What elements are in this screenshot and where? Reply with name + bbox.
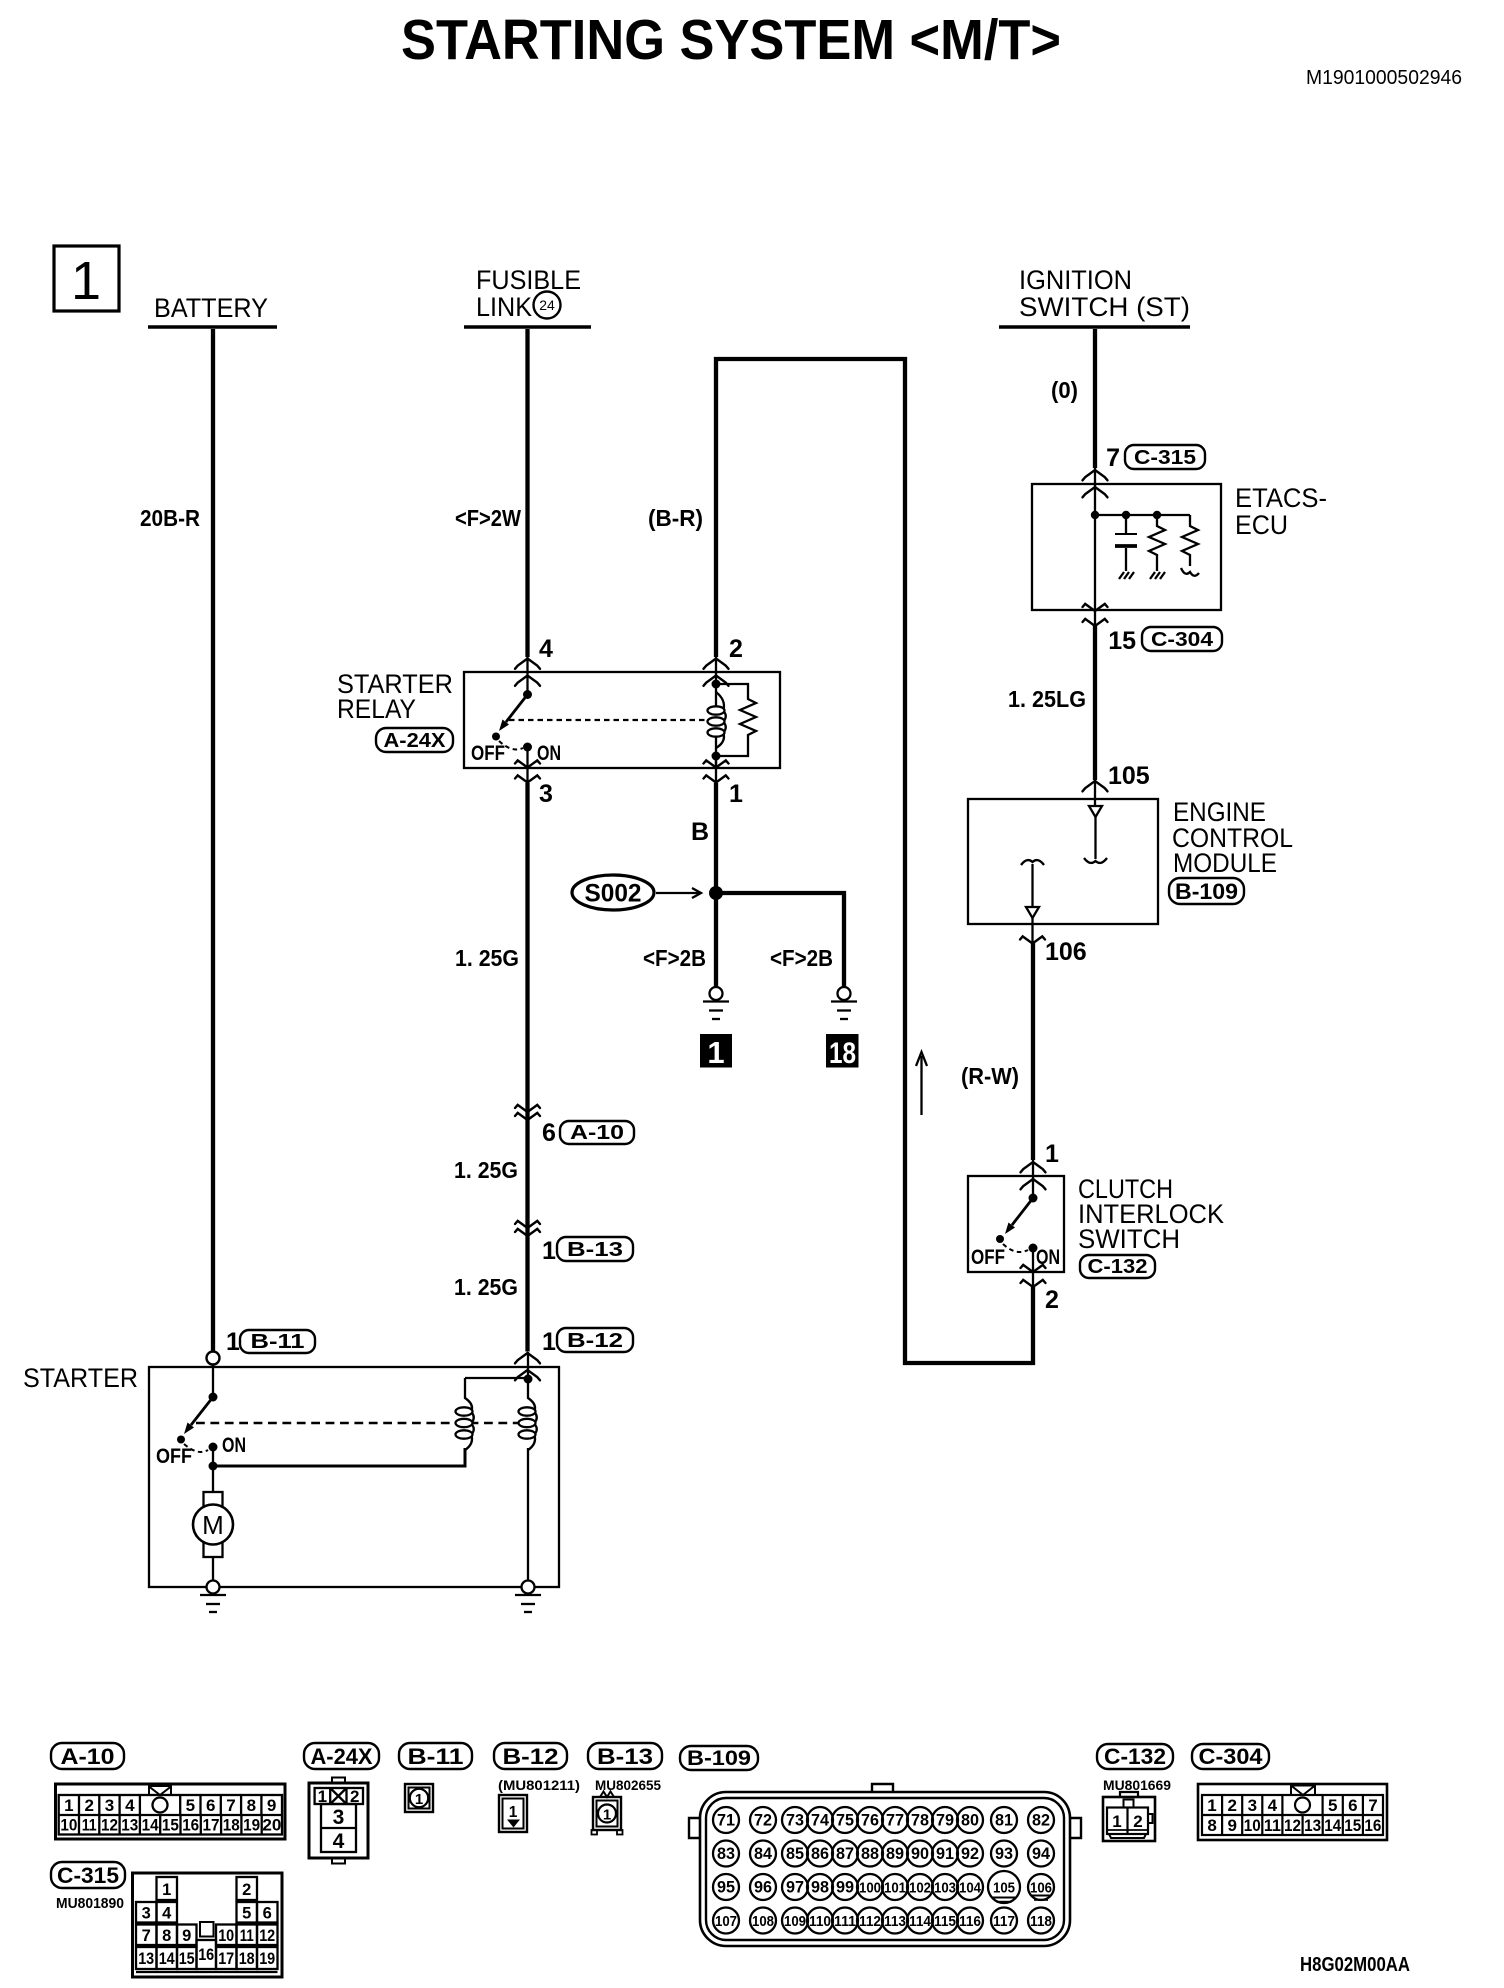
svg-text:17: 17 xyxy=(203,1816,220,1835)
ECM pin 105 internal terminal xyxy=(1084,806,1107,863)
svg-text:A-24X: A-24X xyxy=(384,730,447,752)
svg-text:74: 74 xyxy=(811,1812,830,1830)
svg-text:1: 1 xyxy=(64,1796,73,1815)
svg-text:1: 1 xyxy=(71,251,101,311)
svg-text:15: 15 xyxy=(162,1816,179,1835)
pin numbers C-315 xyxy=(138,1881,275,1968)
svg-text:1: 1 xyxy=(509,1804,518,1821)
connector label C-304 bottom xyxy=(1192,1744,1269,1769)
resistor 2 in ETACS xyxy=(1182,515,1198,566)
svg-text:12: 12 xyxy=(259,1927,275,1945)
connector label B-11 inline xyxy=(240,1330,315,1353)
starter relay box xyxy=(464,672,780,768)
svg-text:1: 1 xyxy=(1112,1812,1121,1831)
relay dashed link xyxy=(509,719,707,721)
svg-text:OFF: OFF xyxy=(156,1445,192,1468)
connector label A-10 bottom xyxy=(51,1743,124,1769)
chevron ECM pin 106 exit xyxy=(1020,936,1045,943)
clutch interlock switch label xyxy=(1078,1174,1224,1254)
svg-text:2: 2 xyxy=(242,1881,251,1899)
svg-text:89: 89 xyxy=(886,1845,904,1863)
svg-text:109: 109 xyxy=(784,1913,806,1930)
svg-text:ON: ON xyxy=(1036,1246,1060,1269)
connector label A-24X bottom xyxy=(304,1743,379,1769)
svg-text:2: 2 xyxy=(729,635,743,663)
svg-text:72: 72 xyxy=(754,1812,772,1830)
chevron relay pin 4 entry xyxy=(515,659,540,669)
starter relay label xyxy=(337,669,453,724)
svg-text:116: 116 xyxy=(959,1913,981,1930)
pin numbers C-304 xyxy=(1207,1796,1381,1835)
capacitor in ETACS xyxy=(1115,515,1137,571)
fusible link label xyxy=(464,265,591,327)
svg-text:106: 106 xyxy=(1030,1880,1052,1897)
svg-text:6: 6 xyxy=(263,1905,272,1923)
svg-text:19: 19 xyxy=(259,1950,275,1968)
svg-text:1: 1 xyxy=(318,1787,327,1806)
resistor 1 in ETACS xyxy=(1149,515,1165,571)
svg-text:1: 1 xyxy=(729,780,743,808)
svg-text:96: 96 xyxy=(754,1879,772,1897)
wire coil top link xyxy=(465,1377,528,1379)
svg-text:<F>2B: <F>2B xyxy=(770,945,833,971)
svg-text:7: 7 xyxy=(142,1927,151,1945)
svg-text:OFF: OFF xyxy=(971,1246,1005,1269)
wire 1.25LG ETACS to ECM xyxy=(1094,610,1096,627)
svg-text:79: 79 xyxy=(936,1812,954,1830)
svg-text:88: 88 xyxy=(861,1845,879,1863)
svg-text:4: 4 xyxy=(162,1905,172,1923)
svg-text:2: 2 xyxy=(84,1796,93,1815)
hook terminal under resistor 2 xyxy=(1181,568,1199,576)
svg-text:6: 6 xyxy=(206,1796,215,1815)
svg-text:C-304: C-304 xyxy=(1151,629,1214,651)
svg-text:86: 86 xyxy=(811,1845,829,1863)
svg-text:2: 2 xyxy=(350,1787,359,1806)
svg-text:11: 11 xyxy=(82,1816,97,1835)
pin numbers A-10 row 2 xyxy=(60,1816,281,1835)
wire ignition switch to ETACS pin 7 xyxy=(1093,329,1097,468)
relay coil resistor xyxy=(716,684,756,756)
svg-text:M1901000502946: M1901000502946 xyxy=(1306,67,1462,89)
svg-text:12: 12 xyxy=(101,1816,118,1835)
svg-text:6: 6 xyxy=(1348,1796,1357,1815)
wire B-R thick loop xyxy=(716,359,1033,1363)
svg-text:81: 81 xyxy=(995,1812,1013,1830)
connector label A-24X xyxy=(376,728,453,752)
wire splice branch to ground 18 xyxy=(716,893,844,987)
svg-text:(0): (0) xyxy=(1051,377,1078,403)
svg-text:A-24X: A-24X xyxy=(311,1744,373,1769)
svg-text:105: 105 xyxy=(1108,762,1150,790)
svg-text:3: 3 xyxy=(333,1806,345,1829)
svg-text:76: 76 xyxy=(861,1812,879,1830)
connector label C-315 bottom xyxy=(51,1862,125,1888)
starter dashed link xyxy=(196,1422,527,1424)
chevron inline connector B-13 xyxy=(515,1221,540,1228)
svg-text:4: 4 xyxy=(539,635,553,663)
connector label A-10 inline xyxy=(560,1121,634,1144)
svg-text:4: 4 xyxy=(1268,1796,1278,1815)
svg-text:1: 1 xyxy=(603,1807,611,1824)
svg-text:H8G02M00AA: H8G02M00AA xyxy=(1300,1954,1410,1976)
svg-text:75: 75 xyxy=(836,1812,854,1830)
svg-text:95: 95 xyxy=(717,1879,735,1897)
svg-text:115: 115 xyxy=(934,1913,956,1930)
svg-text:107: 107 xyxy=(715,1913,737,1930)
connector diagram C-315 xyxy=(133,1873,283,1977)
ground 1 xyxy=(703,987,729,1019)
svg-text:BATTERY: BATTERY xyxy=(154,293,268,323)
svg-text:17: 17 xyxy=(218,1950,234,1968)
connector diagram B-13 xyxy=(592,1792,623,1835)
svg-text:1: 1 xyxy=(1207,1796,1216,1815)
svg-text:1: 1 xyxy=(542,1237,556,1265)
svg-text:3: 3 xyxy=(1248,1796,1257,1815)
svg-text:<F>2B: <F>2B xyxy=(643,945,706,971)
svg-text:OFF: OFF xyxy=(471,742,505,765)
starter motor M xyxy=(193,1466,233,1581)
connector label C-132 xyxy=(1080,1255,1155,1278)
node coil junction xyxy=(524,1375,533,1384)
svg-text:ON: ON xyxy=(222,1434,246,1457)
chevron relay pin 3 exit xyxy=(515,760,540,767)
svg-text:12: 12 xyxy=(1284,1816,1301,1835)
svg-text:8: 8 xyxy=(162,1927,171,1945)
clutch interlock switch box xyxy=(968,1176,1064,1272)
chevron inline connector A-10 xyxy=(515,1105,540,1112)
connector diagram A-24X xyxy=(309,1778,368,1864)
connector diagram C-304 xyxy=(1198,1784,1387,1840)
arrow S002 to splice xyxy=(656,888,701,898)
svg-text:97: 97 xyxy=(786,1879,804,1897)
svg-text:C-132: C-132 xyxy=(1104,1744,1166,1769)
connector diagram B-109 pins xyxy=(713,1807,1054,1934)
svg-text:STARTER: STARTER xyxy=(23,1363,138,1393)
connector label B-109 bottom xyxy=(680,1746,758,1770)
svg-text:4: 4 xyxy=(333,1830,345,1853)
svg-text:11: 11 xyxy=(240,1927,254,1945)
svg-text:B-13: B-13 xyxy=(597,1744,653,1769)
svg-text:19: 19 xyxy=(243,1816,260,1835)
svg-text:3: 3 xyxy=(142,1905,151,1923)
svg-text:B-13: B-13 xyxy=(567,1239,623,1261)
svg-text:MODULE: MODULE xyxy=(1173,848,1277,878)
svg-text:1: 1 xyxy=(707,1035,724,1070)
relay switch xyxy=(471,690,561,783)
svg-text:101: 101 xyxy=(884,1880,906,1897)
svg-text:11: 11 xyxy=(1264,1816,1281,1835)
svg-text:MU801669: MU801669 xyxy=(1103,1777,1171,1793)
svg-text:18: 18 xyxy=(239,1950,255,1968)
svg-text:6: 6 xyxy=(542,1119,556,1147)
svg-text:2: 2 xyxy=(1227,1796,1236,1815)
svg-text:20: 20 xyxy=(262,1816,281,1835)
svg-text:92: 92 xyxy=(961,1845,979,1863)
wire relay pin 1 to ground splice xyxy=(714,783,718,987)
svg-text:10: 10 xyxy=(218,1927,234,1945)
svg-text:ON: ON xyxy=(537,742,561,765)
svg-text:8: 8 xyxy=(247,1796,256,1815)
svg-text:114: 114 xyxy=(909,1913,932,1930)
svg-text:78: 78 xyxy=(911,1812,929,1830)
svg-text:1. 25G: 1. 25G xyxy=(455,945,519,971)
svg-text:77: 77 xyxy=(886,1812,904,1830)
svg-text:B-11: B-11 xyxy=(408,1744,464,1769)
svg-text:20B-R: 20B-R xyxy=(140,505,200,531)
svg-text:16: 16 xyxy=(182,1816,199,1835)
svg-text:90: 90 xyxy=(911,1845,929,1863)
ground mark box 1 xyxy=(700,1034,732,1070)
svg-text:113: 113 xyxy=(884,1913,906,1930)
svg-text:14: 14 xyxy=(1324,1816,1341,1835)
svg-text:LINK: LINK xyxy=(476,292,532,322)
pin numbers A-24X xyxy=(318,1787,360,1853)
svg-text:108: 108 xyxy=(752,1913,774,1930)
node ETACS bus xyxy=(1095,514,1190,516)
svg-text:83: 83 xyxy=(717,1845,735,1863)
svg-text:C-132: C-132 xyxy=(1088,1256,1148,1278)
connector label C-304 xyxy=(1142,627,1222,651)
svg-text:B-12: B-12 xyxy=(567,1330,623,1352)
svg-text:14: 14 xyxy=(142,1816,159,1835)
connector label B-12 inline xyxy=(557,1328,633,1352)
chevron ECM pin 105 entry xyxy=(1083,781,1108,791)
svg-text:15: 15 xyxy=(1108,627,1136,655)
svg-text:B-109: B-109 xyxy=(687,1747,751,1770)
starter switch xyxy=(156,1365,246,1471)
svg-text:MU802655: MU802655 xyxy=(595,1777,661,1793)
svg-text:1: 1 xyxy=(542,1328,556,1356)
pin numbers C-132 xyxy=(1112,1812,1142,1831)
highlight marks pin 106 xyxy=(1031,1896,1051,1900)
ground 18 xyxy=(831,987,857,1019)
connector label B-11 bottom xyxy=(399,1743,472,1769)
svg-text:B: B xyxy=(691,818,709,846)
svg-text:84: 84 xyxy=(754,1845,773,1863)
ignition switch label xyxy=(999,265,1190,327)
svg-text:B-109: B-109 xyxy=(1175,879,1238,904)
wire battery 20B-R xyxy=(211,329,215,1352)
connector diagram A-10 xyxy=(56,1784,286,1839)
svg-text:111: 111 xyxy=(834,1913,856,1930)
svg-text:91: 91 xyxy=(936,1845,954,1863)
connector diagram B-109 shell xyxy=(689,1784,1081,1946)
svg-text:C-315: C-315 xyxy=(57,1863,119,1888)
ground hatched under resistor 1 xyxy=(1150,572,1165,579)
svg-text:RELAY: RELAY xyxy=(337,694,416,724)
ground mark box 18 xyxy=(826,1034,859,1070)
svg-text:18: 18 xyxy=(829,1037,856,1070)
connector label C-132 bottom xyxy=(1097,1744,1173,1769)
svg-text:ETACS-: ETACS- xyxy=(1235,483,1327,513)
ETACS-ECU label xyxy=(1235,483,1327,540)
svg-text:5: 5 xyxy=(242,1905,251,1923)
wire fusible link to relay pin 4 xyxy=(525,329,529,657)
svg-text:SWITCH: SWITCH xyxy=(1078,1224,1180,1254)
svg-text:B-12: B-12 xyxy=(503,1744,559,1769)
svg-text:87: 87 xyxy=(836,1845,854,1863)
svg-text:7: 7 xyxy=(1368,1796,1377,1815)
svg-text:1: 1 xyxy=(1045,1140,1059,1168)
svg-text:14: 14 xyxy=(159,1950,176,1968)
wire inside ETACS xyxy=(1094,484,1096,610)
svg-text:13: 13 xyxy=(1304,1816,1321,1835)
svg-text:18: 18 xyxy=(223,1816,240,1835)
svg-text:15: 15 xyxy=(179,1950,195,1968)
svg-text:10: 10 xyxy=(60,1816,77,1835)
ground starter coil xyxy=(515,1581,541,1613)
svg-text:15: 15 xyxy=(1344,1816,1361,1835)
svg-text:24: 24 xyxy=(539,297,555,313)
svg-text:FUSIBLE: FUSIBLE xyxy=(476,265,581,295)
svg-text:C-315: C-315 xyxy=(1134,447,1196,469)
svg-text:16: 16 xyxy=(1364,1816,1381,1835)
svg-text:9: 9 xyxy=(1227,1816,1236,1835)
starter pull-in coil xyxy=(456,1378,474,1450)
chevron relay pin 1 exit xyxy=(704,760,729,767)
clutch switch internals xyxy=(971,1176,1060,1287)
svg-text:A-10: A-10 xyxy=(61,1744,115,1769)
ground starter motor xyxy=(200,1581,226,1613)
svg-text:1: 1 xyxy=(226,1328,240,1356)
chevron relay pin 2 entry xyxy=(704,659,729,669)
relay coil xyxy=(708,657,726,768)
svg-text:ECU: ECU xyxy=(1235,510,1288,540)
ground hatched under capacitor xyxy=(1119,572,1134,579)
chevron starter B-12 entry xyxy=(515,1353,540,1363)
ETACS-ECU box xyxy=(1032,484,1221,610)
svg-text:4: 4 xyxy=(125,1796,135,1815)
svg-text:1: 1 xyxy=(415,1791,423,1808)
svg-text:1. 25LG: 1. 25LG xyxy=(1008,686,1086,712)
svg-text:110: 110 xyxy=(809,1913,831,1930)
svg-text:9: 9 xyxy=(267,1796,276,1815)
svg-text:(MU801211): (MU801211) xyxy=(498,1777,580,1793)
svg-text:7: 7 xyxy=(226,1796,235,1815)
connector diagram B-11 xyxy=(405,1784,433,1812)
svg-text:99: 99 xyxy=(836,1879,854,1897)
svg-text:71: 71 xyxy=(717,1812,735,1830)
connector diagram B-12 xyxy=(499,1795,527,1832)
wire R-W ECM to clutch switch xyxy=(1031,943,1035,1160)
terminal circle B-11 xyxy=(207,1352,220,1365)
svg-text:1: 1 xyxy=(162,1881,171,1899)
svg-text:C-304: C-304 xyxy=(1199,1744,1264,1769)
svg-text:112: 112 xyxy=(859,1913,881,1930)
arrow direction R-W xyxy=(916,1052,927,1115)
svg-text:80: 80 xyxy=(961,1812,979,1830)
starter box xyxy=(149,1367,559,1587)
svg-text:A-10: A-10 xyxy=(570,1122,624,1144)
chevron ETACS pin 7 entry xyxy=(1083,470,1108,480)
svg-text:100: 100 xyxy=(859,1880,881,1897)
svg-text:103: 103 xyxy=(934,1880,956,1897)
svg-text:3: 3 xyxy=(105,1796,114,1815)
svg-text:93: 93 xyxy=(995,1845,1013,1863)
svg-text:102: 102 xyxy=(909,1880,931,1897)
svg-text:73: 73 xyxy=(786,1812,804,1830)
wire switch to coils xyxy=(213,1448,465,1466)
svg-text:(B-R): (B-R) xyxy=(648,505,703,531)
svg-text:94: 94 xyxy=(1032,1845,1051,1863)
svg-text:(R-W): (R-W) xyxy=(961,1063,1019,1089)
connector label B-13 bottom xyxy=(588,1743,662,1769)
svg-text:106: 106 xyxy=(1045,938,1087,966)
pin numbers A-10 row 1 xyxy=(64,1796,276,1815)
chevron ETACS pin 15 exit xyxy=(1083,604,1108,611)
svg-text:IGNITION: IGNITION xyxy=(1019,265,1132,295)
engine control module box xyxy=(968,799,1158,924)
connector label B-13 inline xyxy=(557,1237,633,1261)
svg-text:118: 118 xyxy=(1030,1913,1052,1930)
svg-text:82: 82 xyxy=(1032,1812,1050,1830)
svg-text:13: 13 xyxy=(121,1816,138,1835)
svg-text:2: 2 xyxy=(1133,1812,1142,1831)
ECM label xyxy=(1172,797,1293,878)
svg-text:<F>2W: <F>2W xyxy=(455,505,521,531)
svg-text:13: 13 xyxy=(138,1950,154,1968)
svg-text:9: 9 xyxy=(182,1927,191,1945)
svg-text:10: 10 xyxy=(1244,1816,1261,1835)
connector diagram C-132 xyxy=(1103,1792,1155,1841)
svg-text:5: 5 xyxy=(1328,1796,1337,1815)
svg-text:M: M xyxy=(202,1510,224,1540)
svg-text:MU801890: MU801890 xyxy=(56,1895,124,1912)
svg-text:SWITCH (ST): SWITCH (ST) xyxy=(1019,292,1190,322)
svg-text:98: 98 xyxy=(811,1879,829,1897)
svg-text:S002: S002 xyxy=(585,880,642,908)
svg-text:1. 25G: 1. 25G xyxy=(454,1157,518,1183)
svg-text:8: 8 xyxy=(1207,1816,1216,1835)
svg-text:5: 5 xyxy=(186,1796,195,1815)
wire relay pin 3 to starter xyxy=(525,783,529,1352)
svg-text:7: 7 xyxy=(1106,444,1120,472)
highlight marks pin 105 xyxy=(992,1898,1017,1902)
chevron clutch pin 1 entry xyxy=(1021,1162,1046,1172)
svg-text:85: 85 xyxy=(786,1845,804,1863)
svg-text:3: 3 xyxy=(539,780,553,808)
connector label C-315 xyxy=(1125,445,1205,469)
svg-text:16: 16 xyxy=(198,1946,214,1964)
svg-text:117: 117 xyxy=(993,1913,1015,1930)
connector label B-109 xyxy=(1169,878,1244,904)
splice S002 xyxy=(572,875,654,910)
svg-text:1. 25G: 1. 25G xyxy=(454,1274,518,1300)
svg-text:105: 105 xyxy=(993,1880,1015,1897)
svg-text:B-11: B-11 xyxy=(251,1331,305,1353)
svg-text:STARTING SYSTEM <M/T>: STARTING SYSTEM <M/T> xyxy=(401,8,1061,72)
battery label xyxy=(148,293,277,327)
node splice junction xyxy=(709,886,723,900)
svg-text:104: 104 xyxy=(959,1880,982,1897)
svg-text:2: 2 xyxy=(1045,1286,1059,1314)
ECM pin 106 internal terminal xyxy=(1021,860,1044,918)
chevron clutch pin 2 exit xyxy=(1021,1265,1046,1272)
connector label B-12 bottom xyxy=(494,1743,567,1769)
figure number box 1 xyxy=(54,246,119,311)
starter hold-in coil xyxy=(519,1352,537,1581)
